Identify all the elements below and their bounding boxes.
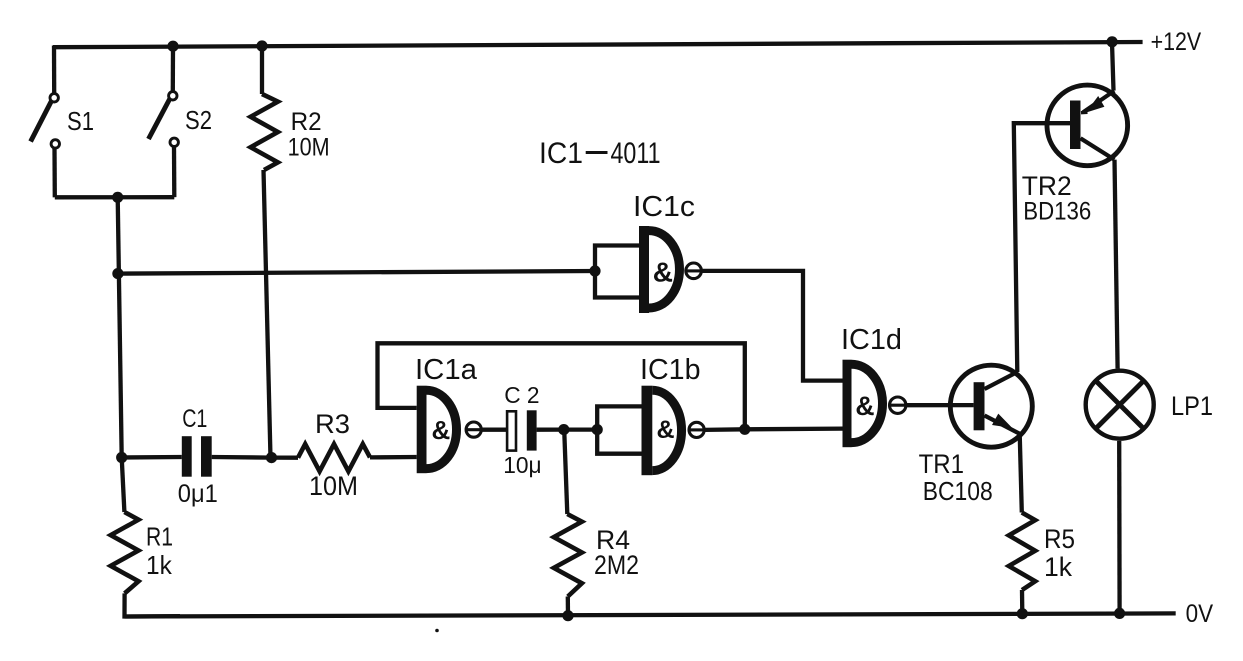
junction R2/C1/R3 node (266, 452, 277, 463)
wire TR1 emitter drop (1020, 434, 1022, 513)
lamp LP1 (1086, 371, 1154, 439)
svg-text:S2: S2 (185, 105, 212, 135)
resistor R4 (554, 514, 582, 597)
svg-text:+12V: +12V (1151, 28, 1202, 56)
label R4 value 2M2 (594, 550, 639, 580)
svg-text:S1: S1 (67, 106, 94, 136)
svg-text:BD136: BD136 (1023, 197, 1091, 225)
junction R2/rail (256, 40, 267, 51)
svg-text:TR1: TR1 (919, 449, 964, 479)
wire 0V bottom rail (125, 613, 1176, 616)
wire R1 top (122, 458, 125, 513)
wire S2 bottom (172, 147, 177, 197)
wire IC1c output to IC1d (702, 271, 843, 381)
wire +12V top rail (53, 42, 1143, 47)
svg-text:IC1d: IC1d (841, 324, 902, 356)
svg-text:&: & (653, 257, 673, 288)
label R3 (315, 409, 350, 439)
label IC1a (415, 354, 478, 386)
transistor TR1 (950, 365, 1032, 447)
svg-text:&: & (855, 391, 874, 421)
svg-text:BC108: BC108 (923, 476, 993, 506)
wire R2 drop from rail (260, 46, 264, 94)
wire TR2 collector drop to LP1 (1115, 160, 1118, 369)
wire IC1a out to C2 (481, 428, 507, 432)
svg-text:IC1b: IC1b (640, 354, 701, 386)
junction IC1c input node (589, 265, 600, 276)
wire S1 drop from rail (52, 46, 57, 94)
svg-text:&: & (432, 415, 451, 445)
wire IC1c input stubs (595, 246, 641, 298)
wire LP1 bottom (1117, 441, 1122, 614)
capacitor C1 (182, 436, 212, 477)
switch S2 (149, 92, 179, 147)
label TR1 (919, 449, 964, 479)
label TR2 (1022, 171, 1072, 201)
label LP1 (1171, 391, 1213, 421)
resistor R1 (111, 512, 139, 593)
label C1 value 0u1 (178, 480, 218, 508)
wire R1 tail corner (125, 593, 181, 616)
svg-text:C1: C1 (182, 405, 207, 433)
label R1 value 1k (146, 550, 173, 580)
label IC1-4011 (539, 137, 661, 170)
wire R5 tail (1020, 590, 1025, 614)
label +12V (1151, 28, 1202, 56)
label R5 (1044, 524, 1075, 554)
svg-text:10μ: 10μ (503, 452, 541, 478)
svg-text:1k: 1k (146, 550, 173, 580)
svg-text:C 2: C 2 (504, 382, 539, 408)
resistor R2 (251, 94, 278, 170)
wire feedback IC1b out to IC1a input (378, 343, 745, 429)
label 0V (1186, 600, 1214, 628)
wire TR2 emitter stub from rail (1112, 42, 1114, 90)
label R5 value 1k (1044, 552, 1072, 582)
wire to IC1d lower input (745, 426, 843, 431)
wire R4 tail (566, 597, 571, 616)
svg-text:LP1: LP1 (1171, 391, 1213, 421)
svg-text:0μ1: 0μ1 (178, 480, 218, 508)
svg-text:&: & (656, 416, 674, 444)
nand gate IC1d (843, 360, 907, 448)
capacitor C2 (507, 410, 536, 450)
label R1 (146, 522, 173, 552)
label S1 (67, 106, 94, 136)
wire to IC1c input (118, 271, 595, 274)
svg-text:10M: 10M (288, 134, 330, 162)
label IC1b (640, 354, 701, 386)
label C2 value 10u (503, 452, 541, 478)
label TR1 value BC108 (923, 476, 993, 506)
resistor R5 (1009, 513, 1035, 591)
junction IC1c branch (112, 268, 123, 279)
svg-text:R5: R5 (1044, 524, 1075, 554)
label C1 (182, 405, 207, 433)
wire R3 left (272, 455, 299, 459)
junction R5/0V (1017, 608, 1028, 619)
label R4 (596, 525, 630, 555)
switch S1 (31, 94, 60, 148)
label S2 (185, 105, 212, 135)
wire switch joiner (55, 195, 175, 199)
svg-text:R3: R3 (315, 409, 350, 439)
resistor R3 (298, 444, 370, 471)
wire TR1 collector riser to TR2 base (1014, 123, 1070, 372)
wire S2 drop from rail (171, 46, 175, 91)
svg-text:R2: R2 (291, 108, 322, 136)
label R2 value 10M (288, 134, 330, 162)
svg-text:2M2: 2M2 (594, 550, 639, 580)
svg-text:1k: 1k (1044, 552, 1072, 582)
nand gate IC1a (417, 386, 482, 474)
label IC1c (633, 191, 695, 223)
junction IC1b out/feedback node (739, 424, 750, 435)
wire C1 right (212, 455, 272, 460)
nand gate IC1c (639, 226, 701, 313)
wire R4 drop (564, 430, 567, 514)
wire node to IC1b (564, 427, 597, 431)
svg-text:0V: 0V (1186, 600, 1214, 628)
wire R3 right (370, 455, 417, 460)
wire C1 left (122, 455, 182, 460)
label R2 (291, 108, 322, 136)
junction C1 left node (116, 452, 127, 463)
svg-text:4011: 4011 (611, 137, 661, 170)
wire node drop (118, 197, 122, 457)
label R3 value 10M (309, 471, 358, 501)
speck (435, 629, 439, 633)
wire IC1d out to TR1 base (906, 403, 974, 407)
svg-text:IC1: IC1 (539, 137, 583, 170)
wire S1 bottom (52, 148, 57, 197)
wire IC1b input stubs (597, 406, 641, 453)
junction C2/R4 node (558, 424, 569, 435)
junction TR2/rail (1107, 36, 1118, 47)
junction IC1b input node (592, 424, 603, 435)
nand gate IC1b (642, 386, 705, 476)
label TR2 value BD136 (1023, 197, 1091, 225)
junction R4/0V (562, 610, 573, 621)
junction switch node (112, 192, 123, 203)
junction S2/rail (167, 41, 178, 52)
svg-text:IC1a: IC1a (415, 354, 478, 386)
label IC1d (841, 324, 902, 356)
junction LP1/0V (1114, 608, 1125, 619)
transistor TR2 (1047, 85, 1128, 166)
label C2 (504, 382, 539, 408)
svg-text:IC1c: IC1c (633, 191, 695, 223)
svg-text:R1: R1 (146, 522, 173, 552)
wire R2 tail (264, 170, 271, 458)
wire C2 to node (537, 427, 564, 431)
wire IC1b out (704, 427, 745, 432)
svg-text:10M: 10M (309, 471, 358, 501)
